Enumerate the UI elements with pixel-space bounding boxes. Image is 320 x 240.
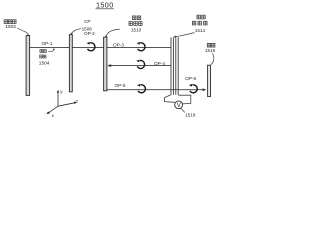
label 光学 bbox=[40, 49, 46, 52]
leader 1516 bbox=[211, 53, 214, 64]
partial reflector 1510 plate bbox=[104, 37, 107, 91]
axes origin bbox=[48, 92, 74, 113]
axis x bbox=[48, 106, 58, 113]
arrowhead leader 1514 bbox=[173, 35, 176, 37]
svg-text:OP-2: OP-2 bbox=[84, 31, 95, 36]
svg-text:OP-6: OP-6 bbox=[185, 76, 196, 81]
reflective polarizer 1514 stack bbox=[171, 37, 178, 95]
polarization loop OP-4 bbox=[136, 60, 144, 69]
arrowhead leader 1508 bbox=[71, 33, 73, 35]
leader 1518 bbox=[181, 108, 185, 112]
arrowhead OP-6 right bbox=[203, 88, 207, 91]
arrowhead axis z bbox=[74, 102, 77, 105]
leader 光学路径 bbox=[48, 49, 54, 52]
display 1502 bbox=[26, 36, 30, 96]
label 偏振器 bbox=[192, 21, 207, 25]
label 显示器 bbox=[4, 20, 16, 24]
polarization loop OP-5 bbox=[137, 84, 145, 93]
wire ray OP-1/OP-2/OP-3 bbox=[30, 47, 171, 49]
label 反射器 bbox=[129, 22, 142, 26]
svg-text:z: z bbox=[76, 99, 78, 104]
svg-text:1502: 1502 bbox=[5, 24, 16, 30]
svg-text:V: V bbox=[177, 103, 181, 109]
circular polarizer CP plate bbox=[69, 35, 72, 92]
label 眼箱 bbox=[207, 43, 215, 47]
wire ray OP-4 bbox=[108, 65, 171, 67]
svg-text:OP-1: OP-1 bbox=[42, 41, 53, 46]
leader 1508 bbox=[71, 29, 80, 34]
wire electrode left bbox=[164, 95, 174, 103]
arrowhead leader 1510 bbox=[105, 35, 107, 37]
svg-text:OP-5: OP-5 bbox=[115, 83, 126, 88]
wire electrode right bbox=[178, 95, 191, 104]
svg-text:1500: 1500 bbox=[96, 1, 114, 10]
polarization loop OP-3 bbox=[137, 42, 145, 51]
eyebox 1516 bbox=[208, 65, 211, 96]
leader 1510 bbox=[106, 29, 120, 36]
label 反射 bbox=[197, 15, 205, 19]
polarization loop OP-6 bbox=[189, 84, 197, 93]
arrowhead leader 1504 bbox=[53, 48, 55, 50]
label 路径 bbox=[40, 55, 46, 58]
arrowhead axis y bbox=[57, 90, 59, 93]
svg-text:1514: 1514 bbox=[195, 28, 206, 33]
voltage source V 1518 bbox=[175, 101, 183, 109]
arrowhead OP-4 left bbox=[107, 64, 111, 67]
leader 1502 bbox=[17, 28, 28, 36]
svg-text:OP-3: OP-3 bbox=[113, 42, 124, 47]
svg-text:1518: 1518 bbox=[185, 112, 196, 117]
axis y bbox=[57, 92, 59, 106]
wire ray OP-5/OP-6 bbox=[107, 89, 204, 91]
svg-text:OP-4: OP-4 bbox=[154, 61, 165, 66]
arrowhead leader 1502 bbox=[27, 34, 30, 37]
axis z bbox=[58, 103, 75, 106]
svg-text:1510: 1510 bbox=[131, 28, 142, 33]
leader 1514 bbox=[175, 33, 194, 37]
arrowhead axis x bbox=[46, 111, 50, 114]
svg-text:1504: 1504 bbox=[39, 60, 50, 66]
svg-text:1516: 1516 bbox=[205, 48, 216, 53]
svg-text:CP: CP bbox=[84, 19, 91, 24]
label 部分 bbox=[132, 16, 140, 20]
polarization loop OP-2 bbox=[87, 42, 95, 51]
